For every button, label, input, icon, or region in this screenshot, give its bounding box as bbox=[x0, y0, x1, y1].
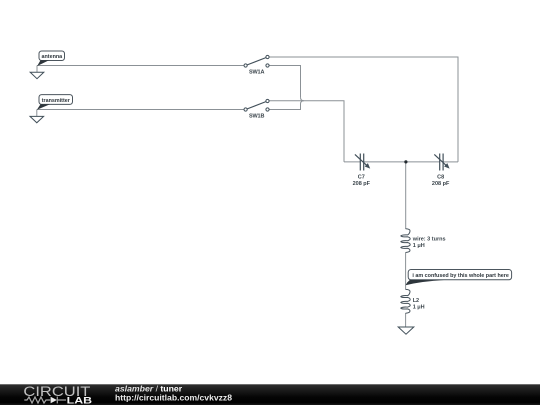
svg-text:L2: L2 bbox=[413, 298, 419, 304]
svg-text:http://circuitlab.com/cvkvzz8: http://circuitlab.com/cvkvzz8 bbox=[115, 393, 232, 403]
svg-text:i am confused by this whole pa: i am confused by this whole part here bbox=[412, 273, 508, 279]
svg-text:1 μH: 1 μH bbox=[413, 305, 425, 311]
svg-text:LAB: LAB bbox=[67, 395, 92, 405]
svg-text:SW1B: SW1B bbox=[249, 114, 264, 120]
svg-text:C7: C7 bbox=[358, 174, 365, 180]
svg-text:C8: C8 bbox=[437, 174, 444, 180]
svg-text:wire: 3 turns: wire: 3 turns bbox=[412, 236, 446, 242]
svg-text:208 pF: 208 pF bbox=[432, 181, 450, 187]
svg-text:antenna: antenna bbox=[42, 54, 64, 60]
svg-text:208 pF: 208 pF bbox=[353, 181, 371, 187]
svg-text:transmitter: transmitter bbox=[42, 98, 71, 104]
svg-text:SW1A: SW1A bbox=[249, 70, 264, 76]
svg-text:1 μH: 1 μH bbox=[413, 243, 425, 249]
